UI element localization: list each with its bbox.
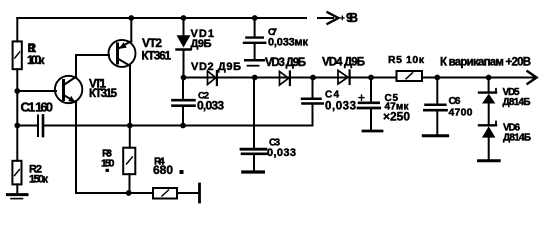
- asterisk R4: [180, 170, 184, 174]
- svg-text:9В: 9В: [346, 11, 358, 25]
- wire VT1 base: [17, 90, 56, 92]
- svg-text:Д9Б: Д9Б: [191, 38, 212, 50]
- svg-text:150к: 150к: [29, 174, 48, 186]
- node C2 on mid bus: [180, 123, 186, 129]
- svg-text:С1 160: С1 160: [21, 100, 54, 115]
- wire VD1 top lead: [183, 18, 185, 35]
- resistor R5: [397, 71, 423, 81]
- wire VD5 to VD6: [488, 104, 490, 126]
- capacitor C3: [241, 148, 266, 151]
- svg-text:+: +: [340, 14, 345, 23]
- transistor VT2: [109, 40, 136, 67]
- capacitor C4: [312, 78, 314, 98]
- ground under C6: [423, 134, 447, 137]
- capacitor C7: [246, 36, 262, 38]
- svg-text:С4: С4: [325, 90, 339, 101]
- svg-text:R5 10к: R5 10к: [388, 54, 425, 66]
- wire R3 bottom lead: [129, 174, 131, 193]
- svg-text:4700: 4700: [449, 107, 473, 119]
- diode VD4: [338, 70, 348, 84]
- node C1 tap (junction dot): [14, 123, 20, 129]
- svg-text:100к: 100к: [27, 53, 45, 67]
- wire left rail middle (R1 to R2): [16, 69, 18, 161]
- ground under C3: [243, 170, 264, 173]
- node R5/C6: [434, 75, 440, 81]
- wire left rail upper (top bus to R1): [16, 18, 18, 41]
- transistor VT1: [55, 76, 82, 103]
- svg-text:VT2: VT2: [142, 36, 162, 50]
- node VD3/C4: [310, 75, 316, 81]
- wire VD6 to ground: [488, 138, 490, 160]
- svg-text:0,033: 0,033: [197, 99, 224, 113]
- svg-text:КТ361: КТ361: [142, 51, 172, 63]
- svg-text:0,033: 0,033: [325, 101, 356, 113]
- wire VT1 emitter down: [75, 102, 77, 193]
- wire VD5 top lead: [488, 78, 490, 93]
- wire top bus: [17, 17, 306, 19]
- wire mid bus left (rail to C1): [17, 125, 37, 127]
- svg-text:0,033мк: 0,033мк: [268, 37, 308, 49]
- node base of VT1 (junction dot): [14, 88, 20, 94]
- wire diode line: [184, 77, 535, 79]
- wire VT1 collector: [76, 55, 109, 77]
- svg-text:КТ315: КТ315: [89, 88, 118, 100]
- svg-text:150: 150: [101, 158, 115, 170]
- svg-text:VD3 Д9Б: VD3 Д9Б: [265, 57, 306, 69]
- capacitor C6: [436, 78, 438, 104]
- node VD1 on top bus: [181, 15, 187, 21]
- node C7 on top bus: [252, 15, 258, 21]
- wire R2 to ground: [16, 184, 18, 193]
- arrow +9V supply: [318, 17, 333, 19]
- zener diode VD6: [479, 124, 496, 126]
- wire R3 top lead: [129, 126, 131, 148]
- svg-text:0,033: 0,033: [267, 147, 296, 159]
- diode VD1: [177, 35, 191, 47]
- diode VD3: [280, 72, 289, 86]
- node VD4/C5: [368, 75, 374, 81]
- svg-text:VD4 Д9Б: VD4 Д9Б: [322, 57, 365, 69]
- svg-text:К варикапам +20В: К варикапам +20В: [440, 57, 531, 69]
- ground under R2: [8, 193, 28, 196]
- wire VT2 emitter to top bus: [130, 18, 132, 42]
- asterisk R3: [106, 169, 109, 172]
- node VD1/VD2/C2: [181, 75, 187, 81]
- arrow output to varicaps: [528, 71, 537, 83]
- resistor R2: [12, 161, 21, 185]
- wire VT2 collector down: [129, 66, 131, 126]
- ground under C5: [363, 130, 382, 133]
- svg-text:Д814Б: Д814Б: [503, 133, 531, 144]
- resistor R1: [13, 41, 22, 69]
- wire mid bus (C1 to C4 bottom): [44, 105, 313, 126]
- wire VD1 bottom lead: [183, 51, 185, 78]
- svg-text:Д814Б: Д814Б: [503, 97, 531, 108]
- capacitor C1: [37, 115, 39, 136]
- terminal bar after R4: [198, 184, 201, 202]
- resistor R3: [123, 148, 135, 175]
- wire C3 top lead: [253, 78, 255, 149]
- node VD2/VD3/C3: [252, 75, 258, 81]
- node R3 on bottom bus: [126, 190, 132, 196]
- node VD5 tap: [486, 75, 492, 81]
- svg-text:С6: С6: [449, 95, 461, 107]
- capacitor C5 (electrolytic, plus mark): [370, 78, 372, 102]
- wire bottom bus: [76, 192, 153, 194]
- svg-text:680: 680: [153, 163, 173, 177]
- ground under C7: [245, 59, 264, 62]
- capacitor C2: [182, 78, 184, 100]
- diode VD2: [208, 71, 216, 85]
- svg-text:VD2 Д9Б: VD2 Д9Б: [191, 61, 241, 73]
- zener diode VD5: [479, 91, 496, 93]
- svg-text:×250: ×250: [383, 110, 410, 124]
- wire C7 top lead: [254, 18, 256, 37]
- node VT2 collector / R3 on mid bus: [127, 123, 133, 129]
- node VT2 emitter on top bus: [128, 15, 134, 21]
- ground under VD6: [479, 159, 500, 162]
- resistor R4: [153, 188, 177, 199]
